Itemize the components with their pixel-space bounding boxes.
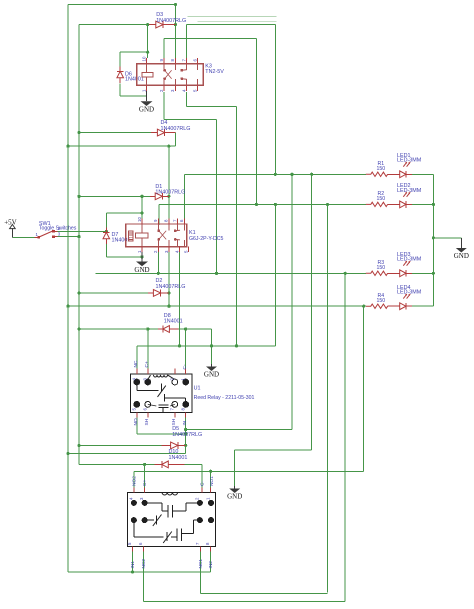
wire SW1 pin3 to rail B xyxy=(58,236,80,238)
diode D2 xyxy=(148,290,169,297)
wire K3 pin2 jog horizontal xyxy=(164,119,216,121)
wire K3 pin4 feeder vertical xyxy=(236,106,238,345)
svg-text:GND: GND xyxy=(139,106,154,114)
wire K3 pin9 vertical xyxy=(163,39,165,59)
svg-text:1N4007RLG: 1N4007RLG xyxy=(172,432,202,438)
wire D1 cathode bus vertical to K1 pin8 xyxy=(168,146,170,225)
diode D4 xyxy=(151,129,175,136)
wire D4 cathode vertical xyxy=(174,133,176,147)
svg-text:NO2: NO2 xyxy=(132,476,138,486)
junction xyxy=(432,272,435,275)
wire K3 pin7 vertical xyxy=(186,25,188,59)
junction xyxy=(362,305,365,308)
wire K1 pin2 vertical to LED3 row xyxy=(157,247,159,273)
wire LED1 row xyxy=(184,173,366,175)
junction xyxy=(157,272,160,275)
wire relay2 pin7 line xyxy=(201,593,328,595)
junction xyxy=(66,145,69,148)
junction xyxy=(131,571,134,574)
svg-text:1N4007RLG: 1N4007RLG xyxy=(156,284,186,290)
wire K1 pin6 vertical from LED1 row xyxy=(183,174,185,225)
svg-text:GND: GND xyxy=(454,252,469,260)
wire LED4 row right xyxy=(412,305,433,307)
wire relay2 C+ vertical xyxy=(144,464,146,487)
svg-text:1N4001: 1N4001 xyxy=(164,318,183,324)
wire K1 pin9 vertical xyxy=(158,204,160,225)
junction xyxy=(235,344,238,347)
wire K3 pin2 feeder vertical to LED3 row xyxy=(216,120,218,274)
junction xyxy=(77,327,80,330)
+5V supply symbol xyxy=(10,224,16,237)
U1 pin numbers xyxy=(132,378,186,411)
ground symbol xyxy=(136,252,148,266)
wire LED1 feeder vertical xyxy=(274,25,276,175)
wire SW1 pin2 to D7 xyxy=(58,230,107,232)
resistor R1 xyxy=(366,172,388,176)
svg-text:G6J-2P-Y-DC5: G6J-2P-Y-DC5 xyxy=(189,236,224,242)
wire D2 anode line from rail B xyxy=(79,292,148,294)
wire LED2 row right xyxy=(412,203,433,205)
junction xyxy=(274,203,277,206)
junction xyxy=(326,203,329,206)
wire rail A bottom corner xyxy=(68,571,211,573)
svg-text:IN: IN xyxy=(182,420,188,425)
wire LED2 branch V275 lower xyxy=(274,204,276,345)
LED LED3 xyxy=(393,261,413,277)
diode D5 xyxy=(162,442,186,449)
svg-text:1N4001: 1N4001 xyxy=(112,237,131,243)
wire D7 anode to K1 gnd xyxy=(106,256,142,258)
resistor R3 xyxy=(366,271,388,275)
svg-text:Reed Relay - 2211-05-301: Reed Relay - 2211-05-301 xyxy=(194,395,255,401)
wire K3 pin2 vertical xyxy=(163,92,165,120)
junction xyxy=(143,463,146,466)
junction xyxy=(290,173,293,176)
wire D10 anode right xyxy=(185,463,202,465)
wire LED3 row xyxy=(96,272,367,274)
wire K1 pin3 vertical / D2 cathode xyxy=(168,247,170,306)
wire relay2 pin6 line xyxy=(144,601,346,603)
svg-text:LED-3MM: LED-3MM xyxy=(397,257,422,263)
wire LED4 row from rail A xyxy=(68,305,366,307)
wire relay2 pin6 vertical xyxy=(143,552,145,602)
diode D3 xyxy=(149,21,175,28)
svg-text:IN1: IN1 xyxy=(130,561,136,569)
wire faint upper 1 xyxy=(188,15,277,17)
wire D4 anode line from rail B xyxy=(79,132,151,134)
svg-text:150: 150 xyxy=(377,196,386,202)
junction xyxy=(140,195,143,198)
svg-text:C-: C- xyxy=(182,364,188,369)
svg-text:1N4001: 1N4001 xyxy=(125,77,144,83)
wire +5V to SW1 xyxy=(12,236,34,238)
wire K3 pin7 to LED1 feeder horizontal xyxy=(187,24,276,26)
junction xyxy=(255,203,258,206)
wire D8 anode line right xyxy=(179,328,212,330)
svg-text:1N4001: 1N4001 xyxy=(169,455,188,461)
junction xyxy=(77,131,80,134)
wire D6 top jog xyxy=(120,51,148,53)
junction xyxy=(310,173,313,176)
wire U1 pin5 vertical xyxy=(136,417,138,434)
junction xyxy=(140,211,143,214)
svg-text:GND: GND xyxy=(227,493,242,501)
junction xyxy=(210,344,213,347)
svg-text:C-: C- xyxy=(199,481,205,486)
svg-text:GND: GND xyxy=(134,266,149,274)
reed relay U1 xyxy=(131,369,193,418)
wire V292 jog to U1 pin8 xyxy=(186,429,292,431)
wire relay2 NO1 vertical xyxy=(210,471,212,487)
junction xyxy=(184,327,187,330)
junction xyxy=(178,344,181,347)
wire D7 anode vertical xyxy=(105,244,107,257)
wire LED right bus vertical xyxy=(432,174,434,306)
diode D1 xyxy=(150,193,169,200)
wire LED1 row right xyxy=(412,173,433,175)
svg-text:NO: NO xyxy=(133,418,139,425)
wire LED4 branch V364 xyxy=(363,306,365,471)
wire rail B vertical xyxy=(78,25,80,465)
wire D6 anode to GND stem xyxy=(120,95,146,97)
ground symbol xyxy=(141,91,153,106)
junction xyxy=(344,272,347,275)
svg-text:IN2: IN2 xyxy=(208,561,214,569)
wire rail A top corner xyxy=(68,4,175,6)
junction xyxy=(215,272,218,275)
wire D4 cathode return to rail A xyxy=(68,145,175,147)
wire relay2 pin5 vertical xyxy=(132,552,134,573)
svg-text:SH: SH xyxy=(144,418,150,425)
wire K3 pin10 vertical xyxy=(147,25,149,58)
junction xyxy=(66,452,69,455)
svg-text:1N4007RLG: 1N4007RLG xyxy=(156,18,186,24)
wire D7 cathode vertical xyxy=(105,213,107,228)
junction xyxy=(140,255,143,258)
LED LED2 xyxy=(393,192,413,208)
resistor R4 xyxy=(366,304,388,308)
relay K2 (DPDT) xyxy=(128,488,216,552)
wire LED3 row right xyxy=(412,272,433,274)
junction xyxy=(146,51,149,54)
junction xyxy=(105,230,108,233)
relay K3 xyxy=(137,58,204,91)
junction xyxy=(77,195,80,198)
diode D6 xyxy=(117,66,124,83)
svg-text:LED-3MM: LED-3MM xyxy=(397,158,422,164)
wire K3 pin8 vertical from top rail xyxy=(174,5,176,59)
wire K1 pin4 vertical xyxy=(179,247,181,346)
wire V312 jog to bottom GND xyxy=(235,449,312,451)
SW1 pin numbers xyxy=(36,226,61,237)
junction xyxy=(77,235,80,238)
wire LED1 branch V312 xyxy=(311,174,313,450)
LED LED4 xyxy=(393,294,413,310)
junction xyxy=(432,203,435,206)
wire U1 C+ vertical xyxy=(147,329,149,369)
junction xyxy=(77,444,80,447)
svg-text:150: 150 xyxy=(377,166,386,172)
svg-text:150: 150 xyxy=(377,298,386,304)
svg-text:150: 150 xyxy=(377,265,386,271)
svg-text:+5V: +5V xyxy=(4,219,17,227)
wire K1 pin10 vertical xyxy=(141,196,143,225)
wire D1 anode line from rail B xyxy=(79,195,150,197)
wire K3 pin9 horizontal xyxy=(164,38,256,40)
svg-text:C+: C+ xyxy=(144,361,150,367)
junction xyxy=(184,432,187,435)
diode D7 xyxy=(103,227,110,244)
junction xyxy=(274,173,277,176)
wire D6 anode vertical xyxy=(119,84,121,97)
svg-text:SH: SH xyxy=(171,418,177,425)
junction xyxy=(66,305,69,308)
svg-text:1N4007RLG: 1N4007RLG xyxy=(161,126,191,132)
wire D6 cathode vertical xyxy=(119,52,121,66)
wire LED bus to GND jog xyxy=(433,237,461,239)
U1 pin names xyxy=(133,360,188,425)
resistor R2 xyxy=(366,202,388,206)
wire relay2 NO line xyxy=(134,470,364,472)
wire D8 corner to GND stem xyxy=(211,329,213,364)
ground symbol xyxy=(229,486,240,493)
junction xyxy=(209,470,212,473)
junction xyxy=(174,3,177,6)
switch SW1 xyxy=(35,230,58,239)
svg-text:TN2-5V: TN2-5V xyxy=(205,69,224,75)
svg-text:U1: U1 xyxy=(194,385,201,391)
svg-text:1N4007RLG: 1N4007RLG xyxy=(155,189,185,195)
wire D8 line from rail B xyxy=(79,328,158,330)
wire D10 line from rail B xyxy=(79,463,155,465)
wire K3 pin4 jog xyxy=(186,92,188,106)
diode D8 xyxy=(158,326,179,333)
K1 pin numbers xyxy=(137,217,189,253)
wire relay2 pin8 vertical xyxy=(210,552,212,573)
junction xyxy=(77,291,80,294)
wire U1 pin5 jog xyxy=(137,433,186,435)
wire LED2 branch V328 xyxy=(327,204,329,592)
diode D10 xyxy=(155,461,185,468)
svg-text:10: 10 xyxy=(137,217,142,222)
wire LED1 branch V292 xyxy=(291,174,293,429)
svg-text:C+: C+ xyxy=(142,480,148,486)
wire U1 NC line xyxy=(137,345,276,347)
wire U1 C- vertical xyxy=(185,329,187,369)
wire rail A vertical xyxy=(67,5,69,573)
junction xyxy=(146,327,149,330)
junction xyxy=(184,428,187,431)
wire relay2 NO2 vertical xyxy=(133,471,135,487)
svg-text:NO1: NO1 xyxy=(209,476,215,486)
wire bottom GND stem upper xyxy=(234,450,236,486)
wire D3 anode line from rail B xyxy=(79,24,149,26)
junction xyxy=(146,23,149,26)
wire D5 anode line from rail B xyxy=(79,444,162,446)
K2 pin names xyxy=(130,476,215,569)
wire D7 cathode jog xyxy=(106,212,142,214)
ground symbol xyxy=(206,364,217,371)
junction xyxy=(432,236,435,239)
svg-text:NC2: NC2 xyxy=(141,559,147,569)
svg-text:NC1: NC1 xyxy=(198,559,204,569)
wire LED3 branch V345 xyxy=(344,273,346,601)
K3 pin numbers xyxy=(141,56,197,92)
junction xyxy=(167,305,170,308)
svg-text:NC: NC xyxy=(133,360,139,367)
svg-text:GND: GND xyxy=(204,371,219,379)
K2 pin numbers xyxy=(127,497,211,545)
wire D5 cathode return to rail A xyxy=(68,452,186,454)
junction xyxy=(167,195,170,198)
wire U1 pin8 vertical xyxy=(185,417,187,453)
wire LED2 feeder vertical xyxy=(255,39,257,205)
wire faint upper 2 xyxy=(198,21,277,23)
wire U1 NC vertical xyxy=(136,346,138,369)
svg-text:10: 10 xyxy=(141,56,146,61)
relay K1 xyxy=(126,219,189,253)
wire relay2 C- vertical xyxy=(201,464,203,487)
ground symbol xyxy=(456,238,467,253)
wire relay2 pin7 vertical xyxy=(200,552,202,594)
junction xyxy=(167,291,170,294)
junction xyxy=(184,444,187,447)
svg-text:LED-3MM: LED-3MM xyxy=(397,290,422,296)
junction xyxy=(174,23,177,26)
junction xyxy=(167,145,170,148)
LED LED1 xyxy=(393,162,413,178)
svg-text:LED-3MM: LED-3MM xyxy=(397,188,422,194)
wire LED2 row xyxy=(159,203,366,205)
